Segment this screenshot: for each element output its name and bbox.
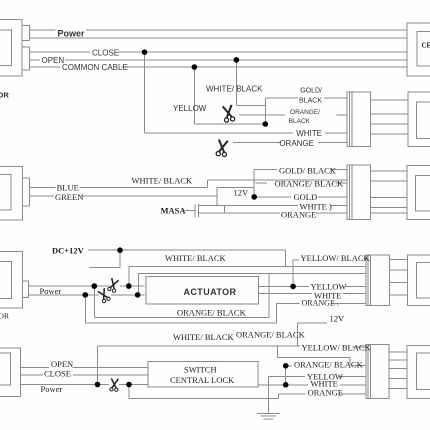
wire OPEN right — [65, 59, 407, 61]
motor M4 outer box — [0, 348, 21, 396]
motor M1 outer box — [0, 20, 22, 76]
motor M2 inner box — [0, 175, 11, 210]
wire Power lower left — [29, 294, 100, 296]
wire YELLOW 4 left — [268, 375, 305, 377]
module U4b outer box — [407, 346, 430, 399]
wire tie vertical — [224, 205, 226, 213]
wire to orange/black run — [207, 179, 347, 181]
svg-text:CLOSE: CLOSE — [92, 48, 119, 57]
svg-text:GOLD: GOLD — [294, 192, 318, 202]
wire WHITE run right — [325, 132, 347, 134]
switch central lock box — [148, 361, 258, 387]
node 12V junction — [251, 194, 257, 200]
connector P1 bar lines — [349, 92, 351, 146]
wire P3 to unit pin2 — [390, 269, 408, 271]
wire P4 to unit pin3 — [389, 368, 407, 370]
wire YELLOW run left — [258, 285, 309, 287]
wire P4 to unit pin4 — [389, 378, 407, 380]
wire WHITE run right — [343, 292, 366, 294]
wire node1 riser to white/black — [97, 346, 99, 385]
svg-text:ACTUATOR: ACTUATOR — [184, 287, 237, 297]
wire P1 to unit pin4 — [370, 133, 408, 135]
wire P2 to unit pin1 — [370, 170, 406, 172]
connector tab T1a — [22, 26, 30, 41]
wire BLUE mid — [80, 187, 208, 189]
svg-text:ORANGE: ORANGE — [279, 139, 314, 148]
node A4 orange/black junction — [283, 363, 289, 369]
node power4 right — [126, 382, 132, 388]
wire GOLD/BLACK run left — [265, 97, 298, 99]
wire ORANGE run right — [316, 212, 347, 214]
wire orange riser — [276, 303, 278, 323]
wire branch drop — [277, 346, 279, 358]
actuator A1 box — [146, 277, 258, 304]
wire YELLOW 4 right — [340, 375, 366, 377]
svg-text:Power: Power — [58, 29, 86, 39]
wire GREEN left — [29, 195, 54, 197]
connector tab T1b — [22, 47, 30, 70]
wire WHITE 4 left — [258, 384, 308, 386]
svg-text:ORANGE/ BLACK: ORANGE/ BLACK — [294, 360, 364, 370]
wire GOLD/BLACK run right — [324, 97, 347, 99]
wire masa top run right (WHITE) — [330, 205, 347, 207]
wire stub loop horizontal — [89, 266, 120, 268]
wire vertical from CLOSE node down — [144, 52, 146, 133]
svg-text:CLOSE: CLOSE — [44, 369, 71, 379]
wire P1 to unit pin2 — [370, 113, 408, 115]
wire 12V corner horizontal — [297, 322, 327, 324]
scissors cut mark S1 — [222, 105, 235, 123]
svg-text:CENTRAL LOCK: CENTRAL LOCK — [170, 375, 235, 385]
module U2b inner box — [416, 175, 430, 210]
svg-text:12V: 12V — [330, 314, 346, 324]
svg-text:OPEN: OPEN — [42, 56, 65, 65]
wire Power lower right — [111, 294, 145, 296]
wire dotA-dotB vertical — [285, 366, 287, 385]
svg-text:YELLOW/ BLACK: YELLOW/ BLACK — [302, 343, 372, 353]
wire P4 to unit pin5 — [389, 388, 407, 390]
motor M2 outer box — [0, 167, 22, 220]
svg-text:Power: Power — [40, 286, 62, 296]
svg-text:MOTOR: MOTOR — [0, 312, 9, 321]
wire P1 to unit pin1 — [370, 99, 408, 101]
svg-text:CENTRAL: CENTRAL — [422, 42, 430, 50]
wire P1 to unit pin3 — [370, 123, 408, 125]
wire Power upper segment right — [86, 29, 407, 31]
wire node D riser — [137, 274, 139, 295]
wire GOLD run left — [254, 196, 291, 198]
wire DC+12V feed — [88, 249, 286, 251]
module U2b outer box — [407, 166, 430, 220]
wire under-box run — [129, 398, 279, 400]
svg-text:ORANGE/ BLACK: ORANGE/ BLACK — [177, 308, 247, 318]
node DC+12V tap — [117, 247, 123, 253]
wire ground drop — [267, 376, 269, 413]
wire CLOSE left — [29, 51, 90, 53]
wire ORANGE/BLACK label dash right — [335, 182, 347, 184]
node power4 left — [95, 382, 101, 388]
node B1 junction — [263, 121, 269, 127]
connector P3 bar lines — [368, 255, 370, 305]
wire vertical from COMMON node down — [193, 67, 195, 124]
wire ORANGE/BLACK stub left — [239, 114, 285, 116]
svg-text:ORANGE: ORANGE — [308, 388, 343, 398]
masa terminal dash — [185, 209, 195, 211]
wire P3 to unit pin3 — [390, 282, 408, 284]
wire GOLD/BLACK run left — [254, 169, 277, 171]
svg-text:ORANGE/ BLACK: ORANGE/ BLACK — [236, 330, 306, 340]
motor M3 inner box — [0, 262, 12, 299]
svg-text:ORANGE .: ORANGE . — [302, 299, 339, 308]
wire DC+12V drop to white/black — [285, 250, 287, 267]
wire CLOSE 4 right — [73, 374, 148, 376]
wire OPEN left — [29, 59, 40, 61]
svg-text:SWITCH: SWITCH — [184, 364, 217, 374]
wire Power upper left — [29, 285, 111, 287]
wire ORANGE 4 run right — [340, 393, 366, 395]
svg-text:WHITE/ BLACK: WHITE/ BLACK — [206, 84, 263, 93]
svg-text:BLACK: BLACK — [289, 118, 311, 125]
connector tab T2 — [22, 178, 29, 206]
wire YELLOW/BLACK right stub — [352, 346, 366, 348]
wire P4 to unit pin2 — [389, 359, 407, 361]
svg-text:ORANGE/: ORANGE/ — [290, 109, 320, 116]
wire ORANGE/BLACK 4 right stub — [352, 364, 366, 366]
connector P2 bar lines — [349, 165, 351, 220]
ground symbol — [257, 413, 280, 418]
svg-text:BLACK: BLACK — [299, 98, 322, 105]
connector P4 bar lines — [368, 344, 370, 398]
svg-text:COMMON CABLE: COMMON CABLE — [62, 63, 128, 72]
svg-text:GOLD/ BLACK: GOLD/ BLACK — [279, 166, 337, 176]
motor M4 inner box — [0, 353, 10, 385]
wire OPEN 4 left — [21, 367, 50, 369]
svg-text:WHITE/ BLACK: WHITE/ BLACK — [132, 176, 194, 186]
wire stub loop vertical — [119, 250, 121, 267]
svg-text:GOLD/: GOLD/ — [300, 88, 322, 95]
wire riser right of actuator — [268, 274, 270, 318]
wire YELLOW/BLACK corner seg — [293, 259, 299, 261]
motor M3 outer box — [0, 252, 22, 308]
wire ORANGE run right — [332, 302, 366, 304]
scissors cut mark S3 — [107, 278, 119, 293]
wire WHITE 4 right — [340, 384, 366, 386]
connector P2 body — [347, 165, 370, 220]
wire lower run under actuator — [85, 322, 276, 324]
module U1b inner box — [417, 102, 430, 139]
motor M1 inner box — [0, 30, 12, 66]
wire Power upper right — [120, 285, 145, 287]
wire masa top run left — [199, 204, 298, 206]
wire branch run — [278, 357, 350, 359]
wire ORANGE 4 run left — [279, 393, 306, 395]
wire green top run — [217, 187, 254, 189]
svg-text:WHITE/ BLACK: WHITE/ BLACK — [173, 332, 235, 342]
wire ORANGE run left — [233, 142, 281, 144]
wire P2 to unit pin4 — [370, 206, 406, 208]
wire BLUE left — [29, 187, 55, 189]
wire P4 to unit pin1 — [389, 351, 407, 353]
central unit U1 inner box — [417, 32, 430, 66]
wire COMMON CABLE left — [29, 66, 60, 68]
wire gold/black riser 2 — [253, 170, 255, 197]
wire WHITE run left — [145, 132, 294, 134]
wire branch drop 2 — [349, 358, 351, 366]
wire 12V drop — [296, 323, 298, 346]
wire ORANGE run right — [318, 142, 347, 144]
node on CLOSE wire — [142, 49, 148, 55]
wire node2 drop — [128, 385, 130, 399]
wire WHITE/BLACK main run — [98, 345, 301, 347]
svg-text:WHITE/ BLACK: WHITE/ BLACK — [165, 253, 227, 263]
wire P2 to unit pin3 — [370, 197, 406, 199]
module U3b inner box — [416, 263, 430, 298]
wire P2 to unit pin5 — [370, 212, 406, 214]
wire Power upper segment left — [29, 29, 55, 31]
node C lower power left — [83, 292, 89, 298]
wire P3 to unit pin1 — [390, 259, 408, 261]
wire ORANGE/BLACK 4 run — [286, 365, 292, 367]
wire YELLOW/BLACK right stub — [364, 258, 366, 260]
svg-text:YELLOW/ BLACK: YELLOW/ BLACK — [301, 253, 371, 263]
svg-text:MOTOR: MOTOR — [0, 91, 9, 100]
wire WHITE run left — [258, 292, 312, 294]
connector P3 body — [366, 255, 390, 305]
wire ORANGE/BLACK stub right — [336, 114, 347, 116]
wire GREEN mid — [81, 195, 217, 197]
svg-text:ORANGE: ORANGE — [281, 209, 316, 219]
module U4b inner box — [417, 353, 430, 390]
connector P1 body — [347, 92, 370, 146]
wire node C drop — [84, 295, 86, 323]
wire GOLD run right — [318, 196, 347, 198]
wire gold/black riser — [264, 98, 266, 124]
wire CLOSE right — [118, 51, 407, 53]
wire vertical from OPEN node down — [235, 60, 237, 106]
svg-text:YELLOW: YELLOW — [173, 104, 207, 113]
wire Power lower — [29, 37, 407, 39]
wire run from node D to connector — [138, 273, 366, 275]
svg-text:WHITE: WHITE — [296, 129, 322, 138]
wire YELLOW/BLACK drop to yellow node — [292, 260, 294, 286]
wire ORANGE/BLACK label dash left — [256, 182, 268, 184]
wire CLOSE 4 left — [21, 374, 44, 376]
wire OPEN 4 right — [73, 367, 149, 369]
central unit U1 outer box — [407, 23, 430, 76]
wire orange 4 riser — [278, 394, 280, 399]
wire BLUE riser — [206, 180, 208, 188]
svg-text:MASA: MASA — [161, 206, 187, 216]
svg-text:GREEN: GREEN — [55, 192, 83, 202]
wire P2 to unit pin2 — [370, 180, 406, 182]
wire YELLOW run right — [345, 285, 366, 287]
wire masa bottom run left — [199, 212, 280, 214]
wire orange/black run under actuator — [94, 317, 268, 319]
connector P4 body — [366, 344, 389, 398]
wire horizontal to node B1 — [194, 123, 265, 125]
node on COMMON wire — [192, 64, 198, 70]
wire node A drop — [93, 286, 95, 317]
node D lower power right — [135, 292, 141, 298]
wire Power 4 left — [21, 384, 110, 386]
node on OPEN wire — [234, 57, 240, 63]
node B upper power right — [126, 283, 132, 289]
node B4 white junction — [283, 382, 289, 388]
wire WHITE/BLACK run to connector — [129, 266, 366, 268]
wire Power 4 right — [119, 384, 148, 386]
wire node B riser — [128, 267, 130, 287]
masa terminal bracket — [195, 204, 199, 217]
connector tab T3 — [22, 281, 28, 298]
wire P3 to unit pin4 — [390, 294, 408, 296]
svg-text:ORANGE/ BLACK: ORANGE/ BLACK — [275, 179, 345, 189]
svg-text:DC+12V: DC+12V — [52, 246, 85, 256]
svg-text:12V: 12V — [234, 187, 250, 197]
wire COMMON CABLE right — [122, 66, 408, 68]
scissors cut mark S2 — [216, 139, 229, 156]
scissors cut mark S5 — [110, 378, 119, 391]
module U3b outer box — [408, 255, 430, 305]
module U1b outer box — [408, 92, 430, 146]
wire GOLD/BLACK run right — [331, 169, 347, 171]
wire ORANGE run left — [277, 302, 300, 304]
wire green riser — [216, 188, 218, 206]
node yellow junction — [290, 284, 296, 290]
svg-text:Power: Power — [41, 384, 63, 394]
scissors cut mark S4 — [97, 288, 110, 303]
node A upper power left — [92, 283, 98, 289]
wire horizontal OPEN tap to gold/black riser — [236, 104, 265, 106]
